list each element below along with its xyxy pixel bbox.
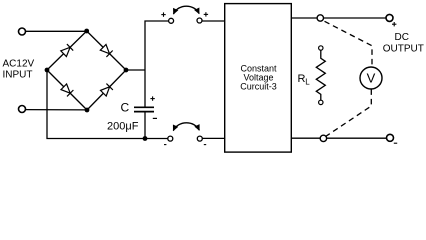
wire capacitor bottom lead <box>144 112 146 139</box>
switch link circle S1a <box>169 18 174 23</box>
svg-text:DC: DC <box>394 32 408 43</box>
junction bridge left vertex <box>45 68 50 73</box>
wire negative rail from bridge left vertex <box>47 70 168 139</box>
resistor RL terminal top <box>319 46 323 50</box>
switch link circle S2b <box>197 136 202 141</box>
label minus S2b <box>204 144 206 146</box>
svg-text:L: L <box>305 77 310 86</box>
wire bridge edge left-bottom <box>47 70 87 110</box>
wire bridge edge top-right <box>87 31 126 70</box>
wire S2b to box <box>202 137 225 139</box>
svg-text:200μF: 200μF <box>107 120 139 132</box>
terminal AC input bottom <box>19 106 26 113</box>
label DC OUTPUT <box>383 32 424 55</box>
capacitor C1 bottom plate <box>134 111 154 113</box>
arrow swap top <box>174 6 200 14</box>
label RL <box>298 73 311 87</box>
label plus C1 <box>150 96 154 100</box>
diode D2 <box>100 45 112 57</box>
terminal DC output minus <box>387 134 394 141</box>
node voltmeter tap top <box>317 15 323 21</box>
voltmeter V1 <box>360 67 382 89</box>
wire bridge edge left-top <box>47 31 87 70</box>
wire dashed voltmeter bottom lead <box>326 89 371 136</box>
resistor RL <box>316 50 325 100</box>
junction bridge bottom vertex <box>85 108 90 113</box>
op-box U1 constant voltage circuit <box>225 4 292 153</box>
wire AC bottom terminal to bridge bottom vertex <box>26 109 88 111</box>
wire box output top <box>291 17 386 19</box>
label minus DC output <box>394 142 397 144</box>
svg-text:C: C <box>121 101 130 115</box>
terminal AC input top <box>19 28 26 35</box>
label plus DC output <box>392 22 396 26</box>
wire bridge right vertex to positive rail <box>126 69 145 71</box>
svg-text:AC12V: AC12V <box>3 59 35 70</box>
svg-text:V: V <box>367 71 376 86</box>
label minus C1 <box>153 117 157 119</box>
label plus S1b <box>204 12 208 16</box>
resistor RL terminal bottom <box>319 100 323 104</box>
terminal DC output plus <box>386 14 393 21</box>
diode D4 <box>101 84 113 96</box>
arrow swap bottom <box>173 123 199 131</box>
node voltmeter tap bottom <box>320 135 326 141</box>
svg-text:INPUT: INPUT <box>3 70 33 81</box>
wire AC top terminal to bridge top vertex <box>26 30 87 32</box>
svg-text:OUTPUT: OUTPUT <box>383 43 424 54</box>
wire box output bottom <box>291 137 386 139</box>
capacitor C1 top plate <box>134 106 154 108</box>
wire bridge edge bottom-right <box>87 70 126 110</box>
junction bridge top vertex <box>84 29 89 34</box>
junction capacitor on negative rail <box>143 136 148 141</box>
wire dashed voltmeter top lead <box>325 21 373 66</box>
diode D1 <box>61 44 73 56</box>
diode D3 <box>61 84 73 96</box>
label plus S1a <box>161 12 165 16</box>
wire S1b to box <box>202 20 225 22</box>
switch link circle S2a <box>168 136 173 141</box>
svg-text:Curcuit-3: Curcuit-3 <box>240 81 277 91</box>
junction bridge right vertex <box>124 68 129 73</box>
svg-text:R: R <box>298 73 306 85</box>
label AC12V INPUT <box>3 59 35 81</box>
switch link circle S1b <box>197 18 202 23</box>
wire positive rail vertical <box>145 21 169 107</box>
label minus S2a <box>164 144 166 146</box>
